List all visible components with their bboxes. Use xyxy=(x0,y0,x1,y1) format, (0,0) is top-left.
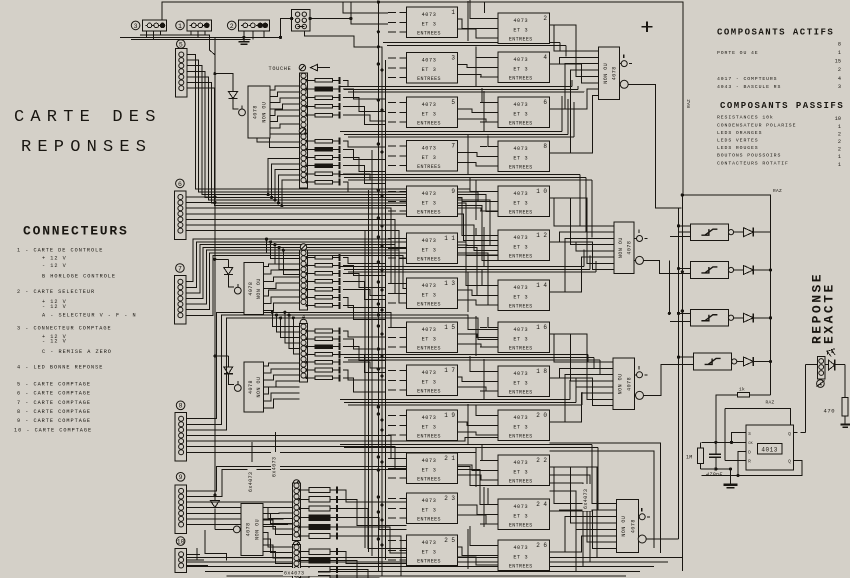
svg-text:1k: 1k xyxy=(739,387,745,393)
wires harness conn9 xyxy=(187,467,499,491)
resistor 1k xyxy=(749,394,770,396)
connector 4 label xyxy=(817,380,825,388)
svg-text:ET 3: ET 3 xyxy=(422,155,437,161)
and gate 20 4073 xyxy=(498,410,550,441)
svg-text:7: 7 xyxy=(178,265,182,272)
svg-text:2: 2 xyxy=(838,147,841,153)
wires inter column xyxy=(458,19,499,29)
and gate 1 4073 xyxy=(407,7,458,38)
wire trunk T2 xyxy=(354,47,382,576)
svg-text:5 - CARTE COMPTAGE: 5 - CARTE COMPTAGE xyxy=(17,382,91,388)
and gate 26 4073 xyxy=(498,540,550,571)
svg-text:4: 4 xyxy=(543,54,547,61)
svg-text:EXACTE: EXACTE xyxy=(822,282,837,344)
svg-text:ENTREES: ENTREES xyxy=(509,254,533,260)
wire trunk T4 xyxy=(371,150,373,556)
and gate 14 4073 xyxy=(498,280,550,311)
wire J2 drops xyxy=(243,31,245,37)
ground 4013 xyxy=(730,469,732,485)
svg-text:2 1: 2 1 xyxy=(444,455,455,462)
wires left gate inputs xyxy=(388,12,396,14)
svg-text:3: 3 xyxy=(134,23,138,30)
svg-text:1 8: 1 8 xyxy=(536,368,547,375)
svg-text:ENTREES: ENTREES xyxy=(417,257,441,263)
connector strip 6 xyxy=(176,179,185,188)
touch contacts G3 xyxy=(300,250,308,310)
svg-text:2: 2 xyxy=(838,132,841,138)
wires R1 inputs xyxy=(550,25,599,51)
diode DS1 xyxy=(734,231,744,233)
svg-text:ET 3: ET 3 xyxy=(422,380,437,386)
svg-text:4073: 4073 xyxy=(513,191,528,197)
svg-text:LEDS ORANGES: LEDS ORANGES xyxy=(717,130,762,136)
svg-text:1 2: 1 2 xyxy=(536,232,547,239)
svg-text:3 - CONNECTEUR COMPTAGE: 3 - CONNECTEUR COMPTAGE xyxy=(17,326,112,332)
touch contacts G5 xyxy=(293,483,301,541)
and gate 8 4073 xyxy=(498,141,550,172)
wires bottom bundle xyxy=(187,557,683,559)
svg-text:- 12 V: - 12 V xyxy=(42,339,67,345)
touch contacts G2 xyxy=(300,134,308,188)
svg-text:- 12 V: - 12 V xyxy=(42,304,67,310)
svg-text:4078: 4078 xyxy=(612,66,618,80)
diode D-L2 xyxy=(227,259,229,267)
junction trunk B xyxy=(213,72,216,75)
and gate 16 4073 xyxy=(498,322,550,353)
svg-text:1 3: 1 3 xyxy=(444,280,455,287)
svg-text:COMPOSANTS ACTIFS: COMPOSANTS ACTIFS xyxy=(717,28,834,38)
svg-text:4078: 4078 xyxy=(248,380,254,394)
svg-text:NON OU: NON OU xyxy=(603,63,609,84)
svg-text:4073: 4073 xyxy=(513,285,528,291)
svg-text:8: 8 xyxy=(543,143,547,150)
diode D-L1 xyxy=(232,80,234,91)
touch header G5 xyxy=(293,480,299,486)
resistor 470 xyxy=(844,365,846,398)
svg-text:4078: 4078 xyxy=(630,519,636,533)
nor gate R1 4078 xyxy=(599,47,620,100)
wire RAZ to 4013 xyxy=(725,409,791,425)
touch contacts G4 xyxy=(300,324,308,383)
svg-text:4073: 4073 xyxy=(513,18,528,24)
plus supply symbol xyxy=(642,26,653,28)
svg-text:RAZ: RAZ xyxy=(773,188,782,194)
svg-text:ET 3: ET 3 xyxy=(422,508,437,514)
svg-text:ENTREES: ENTREES xyxy=(509,76,533,82)
svg-text:CONNECTEURS: CONNECTEURS xyxy=(23,224,129,239)
svg-text:9 - CARTE COMPTAGE: 9 - CARTE COMPTAGE xyxy=(17,418,91,424)
svg-text:CARTE DES: CARTE DES xyxy=(14,108,162,127)
svg-text:1 - CARTE DE CONTROLE: 1 - CARTE DE CONTROLE xyxy=(17,248,103,254)
connector J3 box xyxy=(143,20,167,31)
svg-text:A - SELECTEUR V - F - N: A - SELECTEUR V - F - N xyxy=(42,313,137,319)
junction diode bus xyxy=(769,268,772,271)
wire trunk T1 xyxy=(377,2,379,572)
svg-text:C - REMISE A ZERO: C - REMISE A ZERO xyxy=(42,349,112,355)
connector J3 circle label xyxy=(131,21,140,30)
svg-text:CONDENSATEUR POLARISE: CONDENSATEUR POLARISE xyxy=(717,123,796,129)
svg-text:ENTREES: ENTREES xyxy=(417,76,441,82)
and gate 21 4073 xyxy=(407,453,458,484)
svg-text:ENTREES: ENTREES xyxy=(509,304,533,310)
svg-text:ENTREES: ENTREES xyxy=(417,121,441,127)
label 6x4073 c xyxy=(583,484,592,511)
schmitt trigger S4 xyxy=(694,353,732,370)
diode D-L4 xyxy=(210,501,219,508)
led L4 xyxy=(233,526,240,533)
wire s4 in xyxy=(679,356,694,358)
and gate 4 4073 xyxy=(498,52,550,83)
svg-text:1: 1 xyxy=(838,124,841,130)
svg-text:ET 3: ET 3 xyxy=(422,293,437,299)
wires column crossings xyxy=(467,1,469,41)
svg-text:4073: 4073 xyxy=(422,498,437,504)
svg-text:ET 3: ET 3 xyxy=(422,550,437,556)
diode D-L3 xyxy=(227,356,229,366)
wire L3 diode feed xyxy=(215,355,228,357)
wire raz to schmitt bus xyxy=(683,195,771,395)
svg-text:ET 3: ET 3 xyxy=(513,245,528,251)
svg-text:2: 2 xyxy=(543,15,547,22)
svg-text:ENTREES: ENTREES xyxy=(417,31,441,37)
svg-text:NON OU: NON OU xyxy=(256,278,262,299)
and gate 17 4073 xyxy=(407,365,458,396)
wires right gate input stubs xyxy=(480,18,487,20)
and gate 3 4073 xyxy=(407,53,458,84)
svg-text:- 12 V: - 12 V xyxy=(42,263,67,269)
wires L4 io xyxy=(263,507,300,518)
wire trunk T5 xyxy=(368,190,370,552)
svg-text:6: 6 xyxy=(543,99,547,106)
svg-text:1 5: 1 5 xyxy=(444,324,455,331)
svg-text:4073: 4073 xyxy=(422,370,437,376)
wires stair G3 xyxy=(343,257,386,263)
svg-text:ET 3: ET 3 xyxy=(422,22,437,28)
svg-text:ENTREES: ENTREES xyxy=(417,164,441,170)
wire trunk T3 xyxy=(385,60,387,560)
svg-text:2 3: 2 3 xyxy=(444,495,455,502)
and gate 24 4073 xyxy=(498,499,550,530)
svg-text:4073: 4073 xyxy=(513,57,528,63)
svg-text:4073: 4073 xyxy=(422,458,437,464)
wire r2 out xyxy=(644,260,671,273)
diode DS2 xyxy=(734,269,744,271)
svg-text:ET 3: ET 3 xyxy=(513,112,528,118)
svg-text:3: 3 xyxy=(451,55,455,62)
svg-text:4078: 4078 xyxy=(248,282,254,296)
wire bus top3 xyxy=(131,39,251,41)
junction rotary xyxy=(279,36,282,39)
svg-text:COMPOSANTS PASSIFS: COMPOSANTS PASSIFS xyxy=(720,101,844,111)
svg-text:2 0: 2 0 xyxy=(536,412,547,419)
svg-text:REPONSES: REPONSES xyxy=(21,138,152,157)
svg-text:4073: 4073 xyxy=(513,504,528,510)
touch header G2 xyxy=(299,128,305,134)
resistor 1M xyxy=(699,442,701,448)
nor gate R4 4078 xyxy=(616,500,638,553)
connector J2 circle label xyxy=(227,21,236,30)
svg-text:ET 3: ET 3 xyxy=(422,425,437,431)
resistors G1 xyxy=(307,79,316,81)
wires R2 inputs xyxy=(550,198,615,226)
touch header G6 xyxy=(293,541,299,547)
schmitt trigger S2 xyxy=(691,262,729,279)
svg-text:RAZ: RAZ xyxy=(766,400,775,406)
svg-text:4043 - BASCULE RS: 4043 - BASCULE RS xyxy=(717,84,781,90)
svg-text:ET 3: ET 3 xyxy=(513,470,528,476)
svg-text:1: 1 xyxy=(838,50,841,56)
svg-text:ET 3: ET 3 xyxy=(513,425,528,431)
svg-text:ET 3: ET 3 xyxy=(422,248,437,254)
connector J1 circle label xyxy=(176,21,185,30)
svg-text:2 - CARTE SELECTEUR: 2 - CARTE SELECTEUR xyxy=(17,289,95,295)
svg-text:1 7: 1 7 xyxy=(444,367,455,374)
svg-text:5: 5 xyxy=(451,99,455,106)
wire 4013 R xyxy=(725,459,746,461)
svg-text:4078: 4078 xyxy=(252,105,258,119)
svg-text:NON OU: NON OU xyxy=(256,376,262,397)
svg-text:ET 3: ET 3 xyxy=(513,156,528,162)
wires harness conn5 xyxy=(187,55,499,192)
wire B ctrl xyxy=(205,35,215,55)
svg-text:ENTREES: ENTREES xyxy=(417,389,441,395)
wires risers G2 xyxy=(268,158,299,194)
svg-text:ET 3: ET 3 xyxy=(513,295,528,301)
wire schmitt left bus xyxy=(678,208,680,539)
svg-text:ET 3: ET 3 xyxy=(513,28,528,34)
label 6x4073 b xyxy=(271,452,280,479)
svg-text:4073: 4073 xyxy=(422,327,437,333)
svg-text:1: 1 xyxy=(451,9,455,16)
and gate 22 4073 xyxy=(498,455,550,486)
svg-text:10: 10 xyxy=(177,539,185,546)
svg-text:4078: 4078 xyxy=(626,241,632,255)
schmitt trigger S3 xyxy=(691,309,729,326)
svg-text:ENTREES: ENTREES xyxy=(417,477,441,483)
wire J3 drops xyxy=(146,31,148,37)
svg-text:LEDS VERTES: LEDS VERTES xyxy=(717,138,759,144)
wires L2 io xyxy=(264,264,300,267)
svg-text:ENTREES: ENTREES xyxy=(417,559,441,565)
svg-text:TOUCHE: TOUCHE xyxy=(269,66,292,72)
touch contacts G6 xyxy=(293,544,301,578)
svg-text:3: 3 xyxy=(838,84,841,90)
svg-text:ENTREES: ENTREES xyxy=(417,302,441,308)
svg-text:B HORLOGE CONTROLE: B HORLOGE CONTROLE xyxy=(42,274,116,280)
svg-text:6x4073: 6x4073 xyxy=(284,571,304,577)
svg-text:ET 3: ET 3 xyxy=(422,201,437,207)
schmitt trigger S1 xyxy=(691,224,729,241)
svg-text:6 - CARTE COMPTAGE: 6 - CARTE COMPTAGE xyxy=(17,391,91,397)
svg-text:9: 9 xyxy=(451,188,455,195)
svg-text:2 6: 2 6 xyxy=(536,542,547,549)
wire 4013 CK bus xyxy=(701,441,745,443)
svg-text:470: 470 xyxy=(824,408,836,415)
svg-text:4073: 4073 xyxy=(513,146,528,152)
wire 4013 D loop xyxy=(701,451,745,475)
svg-text:ENTREES: ENTREES xyxy=(509,210,533,216)
diode DS3 xyxy=(734,317,744,319)
wires stair G6 xyxy=(337,552,407,564)
and gate 23 4073 xyxy=(407,493,458,524)
touch header G1 xyxy=(299,64,305,70)
wires R3 inputs xyxy=(550,334,613,362)
and gate 11 4073 xyxy=(407,233,458,264)
svg-text:2 4: 2 4 xyxy=(536,501,547,508)
svg-text:ENTREES: ENTREES xyxy=(509,37,533,43)
svg-text:NON OU: NON OU xyxy=(618,237,624,258)
legend composants actifs xyxy=(717,42,841,91)
svg-text:ENTREES: ENTREES xyxy=(509,346,533,352)
svg-text:ENTREES: ENTREES xyxy=(417,517,441,523)
wires stair G2 xyxy=(343,141,386,147)
svg-text:+ 12 V: + 12 V xyxy=(42,256,67,262)
svg-text:2: 2 xyxy=(230,23,234,30)
connector strip 9 xyxy=(176,473,185,482)
and gate 12 4073 xyxy=(498,230,550,261)
wires row-gap buses xyxy=(383,42,560,44)
and gate 9 4073 xyxy=(407,186,458,217)
wire J1 drops xyxy=(190,31,192,35)
wire trunk T6 xyxy=(364,230,366,548)
svg-text:2 2: 2 2 xyxy=(536,457,547,464)
wires harness conn7 xyxy=(187,239,407,283)
svg-text:ET 3: ET 3 xyxy=(513,67,528,73)
resistors G2 xyxy=(307,140,316,142)
nor gate R2 4078 xyxy=(614,222,634,274)
led L2 xyxy=(234,287,241,294)
svg-text:ENTREES: ENTREES xyxy=(509,434,533,440)
svg-text:1: 1 xyxy=(838,162,841,168)
svg-text:4073: 4073 xyxy=(513,460,528,466)
connector strip 8 xyxy=(176,401,185,410)
nor gate L4 4078 xyxy=(241,503,263,555)
svg-text:470nF: 470nF xyxy=(706,472,723,478)
svg-text:4013: 4013 xyxy=(761,447,777,454)
wire led xyxy=(805,364,817,366)
label 6x4073 a xyxy=(248,467,257,494)
svg-text:4 - LED BONNE REPONSE: 4 - LED BONNE REPONSE xyxy=(17,365,103,371)
and gate 25 4073 xyxy=(407,535,458,566)
nor gate L1 4078 xyxy=(248,86,270,138)
svg-text:4073: 4073 xyxy=(422,12,437,18)
wire L2 diode feed xyxy=(215,258,228,260)
svg-text:1 0: 1 0 xyxy=(536,188,547,195)
wire top drops gate1 xyxy=(343,2,388,13)
and gate 13 4073 xyxy=(407,278,458,309)
connector strip 5 xyxy=(177,40,186,49)
svg-text:4078: 4078 xyxy=(245,522,251,536)
wires harness conn8 xyxy=(187,312,407,418)
junctions trunks xyxy=(377,62,380,65)
svg-text:4073: 4073 xyxy=(513,545,528,551)
svg-text:RAZ: RAZ xyxy=(686,99,692,108)
svg-text:ET 3: ET 3 xyxy=(422,67,437,73)
wires stair G1 xyxy=(343,80,386,86)
svg-text:1: 1 xyxy=(178,23,182,30)
svg-text:4073: 4073 xyxy=(422,191,437,197)
svg-text:ENTREES: ENTREES xyxy=(417,434,441,440)
and gate 7 4073 xyxy=(407,141,458,172)
svg-text:8: 8 xyxy=(838,42,841,48)
svg-text:4073: 4073 xyxy=(513,102,528,108)
svg-text:ENTREES: ENTREES xyxy=(509,523,533,529)
svg-text:7: 7 xyxy=(451,143,455,150)
wire rotary right xyxy=(310,18,351,20)
capacitor 470nF xyxy=(715,442,717,454)
svg-text:6x4073: 6x4073 xyxy=(248,472,254,492)
svg-text:2: 2 xyxy=(838,67,841,73)
resistors G6 xyxy=(300,551,310,553)
svg-text:ENTREES: ENTREES xyxy=(417,210,441,216)
wire raz net lower xyxy=(681,195,683,571)
svg-text:6: 6 xyxy=(178,181,182,188)
svg-text:4: 4 xyxy=(838,76,841,82)
wires harness conn6 xyxy=(187,196,215,198)
svg-text:6x4073: 6x4073 xyxy=(272,457,278,477)
wire bus top1 xyxy=(140,34,210,36)
resistors G4 xyxy=(307,330,316,332)
svg-text:10: 10 xyxy=(835,116,841,122)
svg-text:15: 15 xyxy=(835,59,841,65)
wire r4 out xyxy=(646,538,678,540)
svg-text:1 9: 1 9 xyxy=(444,412,455,419)
wires bottom right corners xyxy=(550,467,598,558)
connector strip 7 xyxy=(176,264,185,273)
svg-text:8: 8 xyxy=(179,403,183,410)
nor R4 output pins xyxy=(639,514,645,520)
svg-text:ENTREES: ENTREES xyxy=(417,346,441,352)
wire top border xyxy=(162,2,683,195)
and gate 5 4073 xyxy=(407,97,458,128)
svg-text:ET 3: ET 3 xyxy=(422,337,437,343)
and gate 10 4073 xyxy=(498,186,550,217)
wires L3 io xyxy=(264,363,300,366)
label 6x4073 d xyxy=(283,568,318,576)
wire cap bottom bus xyxy=(700,468,730,470)
svg-text:ET 3: ET 3 xyxy=(513,514,528,520)
wire bus top2 xyxy=(120,36,281,38)
rotary contact selector xyxy=(292,9,311,31)
svg-text:4078: 4078 xyxy=(627,377,633,391)
svg-text:ET 3: ET 3 xyxy=(513,337,528,343)
svg-text:5: 5 xyxy=(179,41,183,48)
svg-text:ENTREES: ENTREES xyxy=(509,121,533,127)
svg-text:4073: 4073 xyxy=(422,58,437,64)
svg-text:1 4: 1 4 xyxy=(536,282,547,289)
nor gate L2 4078 xyxy=(244,263,264,315)
connector strip 10 xyxy=(176,537,185,546)
and gate 15 4073 xyxy=(407,322,458,353)
wire r3 out xyxy=(644,365,671,396)
svg-text:10 - CARTE COMPTAGE: 10 - CARTE COMPTAGE xyxy=(14,428,92,434)
svg-text:ET 3: ET 3 xyxy=(513,381,528,387)
svg-text:4073: 4073 xyxy=(422,540,437,546)
svg-text:NON OU: NON OU xyxy=(617,373,623,394)
nor gate L3 4078 xyxy=(244,362,264,412)
svg-text:4073: 4073 xyxy=(513,235,528,241)
svg-text:4073: 4073 xyxy=(422,283,437,289)
touch header G3 xyxy=(300,244,306,250)
svg-text:4073: 4073 xyxy=(513,371,528,377)
svg-text:NON OU: NON OU xyxy=(255,519,261,540)
wires harness conn10 xyxy=(187,553,201,555)
svg-text:ENTREES: ENTREES xyxy=(509,564,533,570)
connector J2 box xyxy=(239,20,270,31)
ground R470 xyxy=(840,424,850,426)
svg-text:PORTE OU 4E: PORTE OU 4E xyxy=(717,50,759,56)
junction schmitt bus xyxy=(677,224,680,227)
